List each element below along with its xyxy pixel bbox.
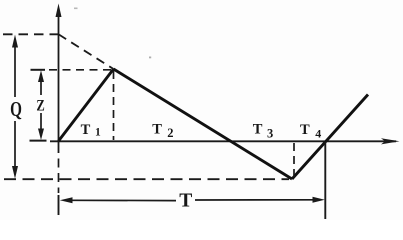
waveform falling segment (peak to minimum) <box>114 69 293 179</box>
zero-level tick left of axis <box>30 140 47 142</box>
svg-text:T: T <box>81 122 91 138</box>
solid tick at Z top level <box>31 69 46 71</box>
dashed drop from peak to axis <box>113 71 115 140</box>
dimension arrow Z (double headed vertical) <box>38 70 44 140</box>
horizontal axis (time) <box>50 138 400 144</box>
right tick of T span <box>324 142 326 219</box>
dimension arrow T (double headed horizontal) <box>60 197 325 204</box>
svg-text:T: T <box>179 191 192 212</box>
scan speck near top <box>74 8 78 10</box>
svg-text:4: 4 <box>315 127 321 141</box>
svg-text:Q: Q <box>10 97 22 121</box>
waveform rising segment (origin to peak) <box>59 69 114 141</box>
svg-text:1: 1 <box>95 127 101 139</box>
dashed Z level line to peak <box>49 69 114 71</box>
svg-text:2: 2 <box>167 126 173 140</box>
svg-text:T: T <box>253 121 263 137</box>
dashed drop from axis to minimum <box>293 143 295 177</box>
svg-text:T: T <box>152 121 162 137</box>
svg-text:3: 3 <box>267 127 273 141</box>
svg-text:Z: Z <box>36 97 44 114</box>
dashed initial-slope extrapolation line <box>59 34 114 69</box>
waveform rising segment (minimum to end) <box>292 95 368 180</box>
dashed minimum level line <box>4 178 289 180</box>
dimension arrow Q (double headed vertical) <box>12 35 18 179</box>
left tick of T span <box>58 195 60 215</box>
scan speck mid <box>149 57 151 59</box>
vertical axis (amplitude) <box>56 4 62 154</box>
dashed Q level line <box>3 33 59 35</box>
svg-text:T: T <box>300 122 310 138</box>
dashed axis extension below origin <box>58 159 60 194</box>
